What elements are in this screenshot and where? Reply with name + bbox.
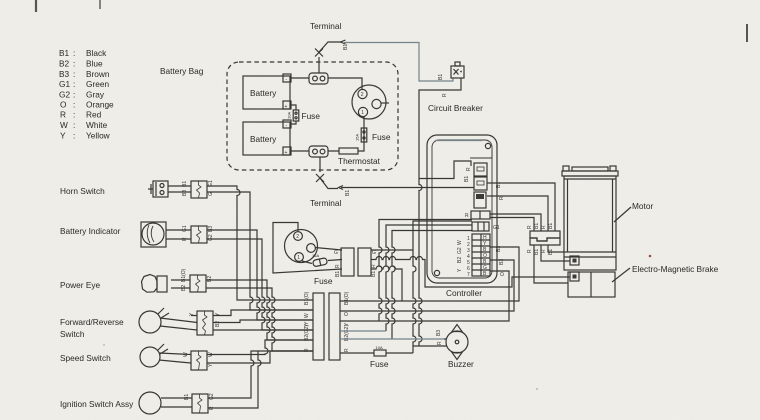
wire top connector to round connector [328,78,362,89]
wire indicator pin1 down to bus row [207,230,313,320]
speed switch [60,344,168,367]
legend color code table [59,48,114,141]
L bracket wire around round connector 2 [273,223,342,274]
motor [562,166,653,270]
speed connector [183,351,214,370]
wire horn pin2 down to bus row [207,192,313,310]
wire battery1 minus to top connector [291,77,309,79]
connector top in bag [309,73,328,84]
wires controller blocks to plug [487,183,555,231]
ignition switch assy [60,392,161,414]
fuse F3 under round connector [302,253,342,286]
connector bars pair [313,293,340,360]
wire battery2 plus to bottom connector and thermostat [291,147,364,151]
G fuse bars [334,248,377,277]
controller block D [472,222,500,231]
controller block C [465,211,490,219]
wires ignition switch to connector [161,398,192,407]
grid pin number labels [457,235,487,278]
connector bottom in bag [309,146,328,157]
bus row 346 buzzer bottom [413,345,444,347]
wire indicator pin2 down to bus row [207,239,313,330]
buzzer [436,325,474,370]
dirt speck [536,388,538,390]
terminal 1 (top) [310,21,349,73]
fuse F4 bottom [340,345,413,369]
bus row 301 to controller grid [340,247,519,301]
dirt speck [649,255,652,258]
wires FR switch to connector [160,316,197,331]
controller grid block E [472,234,490,276]
bar pin labels [304,291,350,352]
controller-left wire 2 down to row 330 [386,225,472,331]
wire R from G-bar to brake [371,257,570,288]
plug connector pair [530,231,560,245]
fuse F2 right in bag [355,117,391,147]
bus row 321 to controller grid [340,271,509,321]
power eye connector [181,268,213,292]
electro-magnetic brake [568,264,719,297]
wires FR connector to bus rows [213,310,313,330]
wire round2 right pin to G bar [315,248,342,251]
wire terminal2 B1 to controller block A [341,187,474,189]
thermostat [338,148,381,166]
battery B2 [243,120,291,156]
controller box [427,135,497,298]
scan artifact marks [36,0,747,42]
bus row 311 to controller grid [340,260,514,311]
wire G bar to controller block D [371,221,472,250]
round connector in bag [352,85,389,119]
dirt speck [103,344,105,346]
wire breaker R down the middle with hops [419,78,471,346]
FR connector [189,311,221,335]
wire G junction down to fuse row [413,250,416,353]
wires ignition up to bus rows [208,351,313,408]
wires power eye to connector [171,280,190,288]
wire power eye pin1 down to bus row [206,280,313,340]
battery B1 [243,74,291,110]
wires speed switch to connector [159,353,191,363]
controller block A [464,163,487,190]
wires plug bottom to motor and brake connectors [534,245,570,283]
controller-left wire 3 down to buzzer row 338 [392,231,472,340]
wires battery indicator to connector [166,230,191,239]
wire terminal1 to circuit breaker [344,43,453,82]
round connector 2 [285,230,318,263]
controller block B [474,192,486,208]
ignition connector [184,393,215,413]
motor connector [570,256,579,265]
battery indicator [60,222,166,247]
battery bag dashed enclosure [227,62,398,170]
wire power eye pin2 down to bus row [206,288,313,351]
wire B1 from G-bar down to bus [371,266,402,301]
bus row 339 to buzzer [340,338,444,340]
wires speed connector up to bus rows [207,340,313,363]
horn connector [182,180,214,198]
power eye [60,275,167,293]
controller-left wire 1 down to row 321 [379,220,472,322]
fuse F1 between batteries [287,105,321,124]
battery indicator connector [182,225,214,243]
bus row 331 blue [340,330,386,332]
forward/reverse switch [60,308,169,339]
circuit breaker CB1 [428,62,483,113]
wire horn pin1 down to bus row [207,186,313,300]
horn switch [60,181,168,197]
wires horn switch to connector [168,186,191,192]
terminal 2 (bottom of bag) [310,157,351,208]
